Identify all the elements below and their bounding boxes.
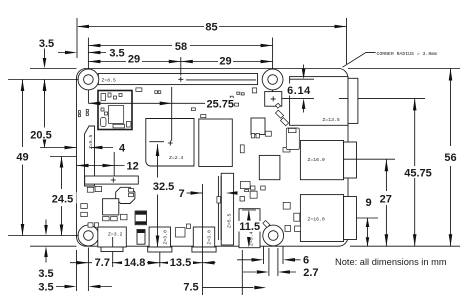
CPU SoC: [199, 119, 233, 167]
CSI connector Z=5.5: [218, 173, 233, 245]
svg-text:Z=5.5: Z=5.5: [88, 134, 94, 149]
svg-text:27: 27: [380, 194, 392, 206]
parts right of CSI: [240, 182, 250, 189]
svg-text:Z=3.0: Z=3.0: [207, 230, 213, 245]
label 27: [378, 193, 394, 205]
USB jack 2 Z=16.0: [300, 195, 356, 242]
diamond pair below ethernet: [275, 110, 283, 118]
svg-text:Z=16.0: Z=16.0: [308, 157, 325, 163]
DSI connector Z=5.5: [85, 126, 95, 186]
svg-text:58: 58: [175, 41, 187, 53]
svg-text:3.5: 3.5: [38, 268, 53, 280]
cap near USB-C: [137, 230, 145, 245]
dim 7: [187, 191, 238, 195]
micro HDMI1 Z=3.0: [192, 227, 216, 252]
dim 56: [449, 69, 453, 247]
dim 58: [88, 38, 272, 92]
svg-text:25.75: 25.75: [207, 99, 235, 111]
svg-text:6: 6: [303, 255, 309, 267]
mounting hole bottom-right: [263, 225, 284, 246]
PMIC: [103, 199, 119, 215]
right mid scatter: [240, 145, 244, 153]
dim 24.5: [60, 157, 64, 236]
svg-text:9: 9: [366, 197, 372, 209]
micro HDMI0 Z=3.0: [148, 227, 172, 252]
svg-text:3.5: 3.5: [39, 38, 54, 50]
dim 3.5 vert top-left: [8, 49, 79, 95]
svg-text:6.14: 6.14: [287, 85, 311, 97]
svg-text:7: 7: [179, 188, 185, 200]
svg-text:13.5: 13.5: [170, 257, 191, 269]
chip U: [251, 118, 265, 135]
svg-text:24.5: 24.5: [52, 193, 73, 205]
svg-text:7.5: 7.5: [183, 282, 198, 294]
label 45.75: [401, 167, 435, 179]
USB jack 1 Z=16.0: [300, 141, 356, 180]
svg-text:7.7: 7.7: [95, 257, 110, 269]
svg-text:56: 56: [444, 152, 456, 164]
WiFi module shield: [98, 91, 132, 130]
svg-text:14.8: 14.8: [124, 257, 145, 269]
label 24.5: [49, 192, 77, 204]
label 14.8: [122, 257, 147, 268]
dim 11.5: [242, 210, 256, 248]
dim 32.5: [156, 144, 160, 247]
left ext lines: [8, 142, 164, 247]
label 25.75: [206, 98, 234, 109]
dim 6 hole pad: [237, 247, 301, 265]
svg-text:Note: all dimensions in mm: Note: all dimensions in mm: [335, 257, 447, 267]
RAM Z=2.4: [146, 119, 194, 167]
dim 3.5 horiz bottom-left: [56, 248, 112, 292]
label 13.5: [168, 257, 193, 268]
svg-text:12: 12: [126, 160, 138, 172]
dim 3.5 vert bottom-left: [44, 220, 48, 263]
dim 7.5: [203, 250, 267, 295]
label 6.14: [283, 84, 315, 96]
svg-text:Z=3.2: Z=3.2: [108, 231, 123, 237]
svg-text:2.7: 2.7: [303, 267, 318, 279]
dim 6.14: [282, 65, 314, 113]
svg-text:29: 29: [128, 53, 140, 65]
svg-text:32.5: 32.5: [153, 181, 174, 193]
mounting hole top-right: [262, 69, 283, 90]
dim 45.75: [413, 98, 417, 246]
dim 20.5: [43, 80, 47, 148]
Ethernet jack Z=13.5: [290, 77, 358, 126]
label 29 left: [127, 53, 142, 64]
svg-text:Z=16.0: Z=16.0: [308, 217, 325, 223]
dim 3.5 horiz top: [58, 51, 106, 55]
mounting hole top-left: [78, 69, 99, 90]
svg-text:3.5: 3.5: [38, 281, 53, 293]
board outline PCB: [77, 69, 349, 247]
dim 49: [21, 80, 25, 236]
right ext lines: [339, 69, 460, 247]
svg-text:85: 85: [205, 21, 217, 33]
svg-text:Z=13.5: Z=13.5: [323, 117, 340, 123]
label 29 right: [218, 55, 233, 66]
GPIO header J8: [98, 74, 257, 85]
label 11.5: [238, 221, 263, 232]
corner radius leader: [343, 52, 376, 67]
between HDMI connectors: [176, 228, 186, 238]
label 7.7: [92, 257, 112, 268]
svg-text:49: 49: [16, 151, 28, 163]
svg-text:Z=5.5: Z=5.5: [227, 213, 233, 228]
label 56: [443, 149, 458, 162]
dim 27: [385, 159, 389, 246]
dim 85: [77, 18, 347, 64]
dim 4: [65, 146, 114, 150]
BOARD: [77, 69, 349, 247]
small parts top strip: [136, 88, 142, 92]
dim 29 + 29: [88, 57, 272, 76]
DSI flex connector: [85, 176, 139, 184]
PoE header: [265, 92, 282, 107]
inductor octagon: [116, 187, 135, 203]
svg-text:11.5: 11.5: [239, 221, 260, 233]
USB3 hub chip: [259, 155, 280, 179]
svg-text:4: 4: [119, 143, 126, 155]
label 20.5: [28, 128, 55, 140]
label 9: [362, 197, 375, 208]
USB-C power Z=3.2: [98, 227, 127, 252]
dim 2.7 hole: [243, 248, 296, 276]
AV jack: [239, 209, 260, 248]
CLUTTER: [78, 88, 300, 237]
label 49: [14, 149, 31, 162]
left column small parts: [78, 111, 80, 114]
svg-text:29: 29: [219, 56, 231, 68]
svg-text:3.5: 3.5: [109, 48, 124, 60]
bottom chain 7.7 14.8 13.5: [70, 184, 216, 295]
svg-text:Z=8.5: Z=8.5: [102, 77, 117, 83]
dim 25.75: [88, 87, 205, 141]
svg-text:45.75: 45.75: [404, 168, 432, 180]
electrolytic cap: [135, 211, 146, 225]
dim 9: [366, 218, 370, 246]
svg-text:CORNER RADIUS = 3.0mm: CORNER RADIUS = 3.0mm: [377, 51, 438, 57]
mounting hole bottom-left: [78, 225, 99, 246]
label 32.5: [151, 180, 176, 191]
svg-text:Z=2.4: Z=2.4: [169, 155, 184, 161]
svg-text:Z=3.0: Z=3.0: [163, 230, 169, 245]
svg-text:20.5: 20.5: [30, 129, 51, 141]
dim 12: [77, 152, 125, 176]
